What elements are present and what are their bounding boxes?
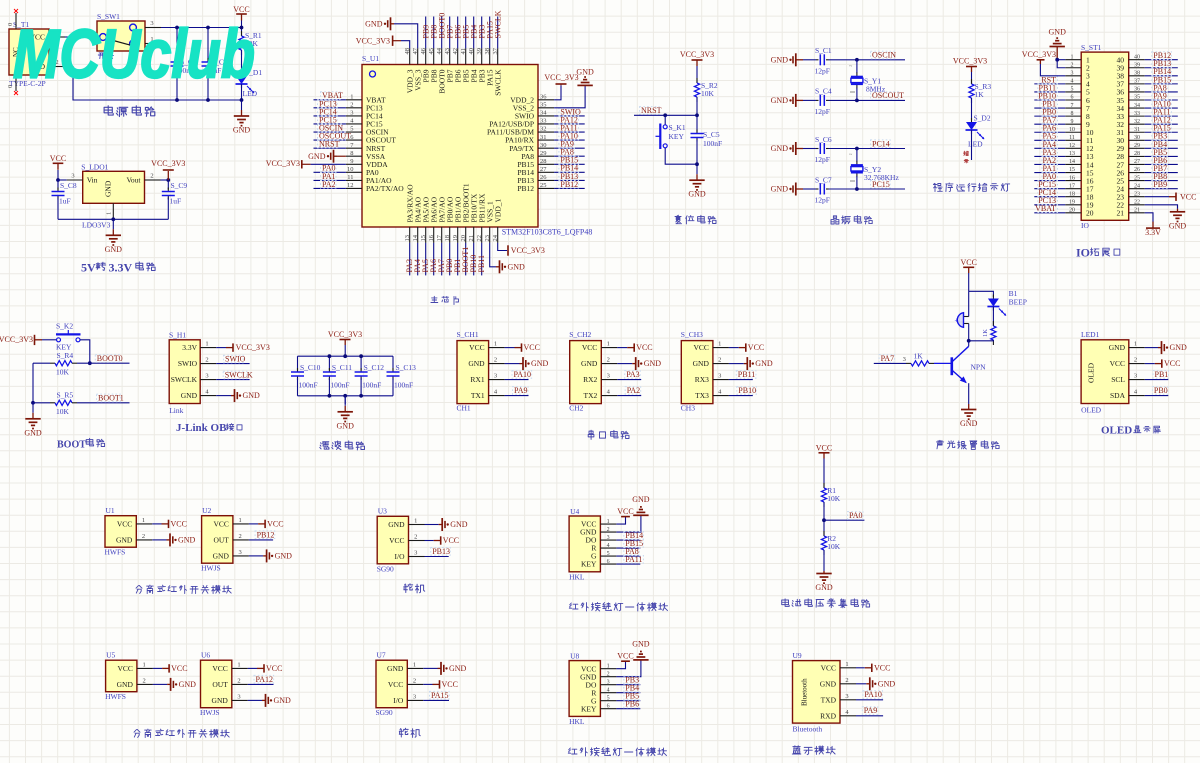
svg-text:22: 22 bbox=[476, 235, 483, 242]
svg-text:VCC: VCC bbox=[171, 664, 187, 673]
svg-text:RXD: RXD bbox=[820, 711, 836, 720]
svg-text:19: 19 bbox=[1069, 199, 1075, 205]
svg-text:VCC: VCC bbox=[267, 520, 283, 529]
svg-text:VCC: VCC bbox=[1164, 359, 1180, 368]
svg-text:S_C8: S_C8 bbox=[60, 181, 77, 190]
svg-text:9: 9 bbox=[1071, 119, 1074, 125]
svg-text:20: 20 bbox=[1086, 209, 1094, 218]
svg-text:GND: GND bbox=[105, 245, 123, 254]
svg-text:PB10: PB10 bbox=[738, 386, 756, 395]
svg-text:1: 1 bbox=[1134, 341, 1137, 348]
svg-text:2: 2 bbox=[414, 534, 417, 541]
svg-text:VCC: VCC bbox=[233, 5, 249, 14]
svg-text:GND: GND bbox=[1109, 343, 1126, 352]
svg-text:2: 2 bbox=[607, 357, 610, 364]
svg-text:U9: U9 bbox=[793, 651, 802, 660]
svg-text:VCC: VCC bbox=[1180, 192, 1196, 201]
svg-text:45: 45 bbox=[428, 48, 435, 55]
svg-text:5: 5 bbox=[607, 695, 610, 701]
svg-text:38: 38 bbox=[1134, 71, 1140, 77]
svg-text:10K: 10K bbox=[827, 542, 841, 551]
svg-text:NPN: NPN bbox=[971, 363, 987, 372]
svg-text:VCC: VCC bbox=[874, 663, 890, 672]
svg-text:S_C11: S_C11 bbox=[332, 363, 352, 372]
svg-text:3: 3 bbox=[1134, 373, 1137, 380]
svg-text:S_H1: S_H1 bbox=[169, 331, 186, 340]
svg-text:SWCLK: SWCLK bbox=[225, 371, 253, 380]
svg-text:LED: LED bbox=[968, 140, 983, 149]
svg-text:SWIO: SWIO bbox=[178, 359, 198, 368]
svg-text:RX3: RX3 bbox=[695, 375, 709, 384]
svg-text:10: 10 bbox=[347, 166, 354, 173]
svg-text:6: 6 bbox=[1071, 95, 1074, 101]
svg-text:IO: IO bbox=[1076, 246, 1090, 260]
svg-text:GND: GND bbox=[755, 359, 773, 368]
svg-text:24: 24 bbox=[492, 234, 499, 241]
svg-text:1K: 1K bbox=[975, 90, 985, 99]
svg-text:1uF: 1uF bbox=[170, 197, 182, 206]
svg-text:S_LDO1: S_LDO1 bbox=[81, 163, 108, 172]
svg-text:VCC_3V3: VCC_3V3 bbox=[328, 330, 362, 339]
svg-text:GND: GND bbox=[387, 664, 404, 673]
svg-text:PB6: PB6 bbox=[625, 700, 639, 709]
svg-text:32: 32 bbox=[540, 126, 547, 133]
svg-text:VCC_3V3: VCC_3V3 bbox=[356, 36, 390, 45]
svg-text:12pF: 12pF bbox=[815, 107, 830, 116]
svg-text:34: 34 bbox=[1134, 103, 1140, 109]
svg-text:21: 21 bbox=[468, 235, 475, 242]
svg-text:GND: GND bbox=[1169, 221, 1187, 230]
svg-text:GND: GND bbox=[117, 680, 134, 689]
svg-text:GND: GND bbox=[337, 421, 355, 430]
svg-text:PA3: PA3 bbox=[626, 370, 640, 379]
svg-text:Vin: Vin bbox=[87, 176, 98, 185]
svg-text:KEY: KEY bbox=[669, 132, 685, 141]
svg-text:SCL: SCL bbox=[1111, 375, 1125, 384]
svg-text:S_U1: S_U1 bbox=[362, 54, 379, 63]
svg-text:40: 40 bbox=[468, 48, 475, 55]
svg-text:19: 19 bbox=[452, 235, 459, 242]
svg-text:41: 41 bbox=[460, 48, 467, 55]
svg-text:GND: GND bbox=[178, 536, 196, 545]
svg-text:S_CH2: S_CH2 bbox=[569, 330, 591, 339]
svg-text:S_C9: S_C9 bbox=[171, 181, 188, 190]
svg-text:GND: GND bbox=[508, 262, 526, 271]
svg-text:Link: Link bbox=[169, 406, 183, 415]
svg-text:3: 3 bbox=[903, 356, 906, 363]
svg-text:VCC: VCC bbox=[617, 651, 633, 660]
svg-text:GND: GND bbox=[274, 696, 292, 705]
svg-text:U5: U5 bbox=[106, 651, 115, 660]
svg-text:21: 21 bbox=[1134, 208, 1140, 214]
svg-text:BOOT1: BOOT1 bbox=[98, 394, 124, 403]
svg-text:1uF: 1uF bbox=[59, 197, 71, 206]
svg-text:STM32F103C8T6_LQFP48: STM32F103C8T6_LQFP48 bbox=[502, 228, 593, 237]
svg-text:42: 42 bbox=[452, 48, 459, 55]
svg-text:GND: GND bbox=[365, 19, 383, 28]
svg-text:8MHz: 8MHz bbox=[866, 85, 886, 94]
svg-text:5: 5 bbox=[607, 551, 610, 557]
svg-text:HKL: HKL bbox=[569, 717, 585, 726]
svg-text:39: 39 bbox=[1134, 62, 1140, 68]
svg-text:3: 3 bbox=[845, 693, 848, 700]
svg-text:VCC: VCC bbox=[960, 258, 976, 267]
svg-text:7: 7 bbox=[1071, 103, 1074, 109]
svg-text:SG90: SG90 bbox=[376, 708, 393, 717]
svg-text:PA2: PA2 bbox=[627, 386, 641, 395]
svg-text:23: 23 bbox=[1134, 191, 1140, 197]
svg-text:VCC: VCC bbox=[821, 663, 836, 672]
svg-text:3: 3 bbox=[494, 373, 497, 380]
svg-text:26: 26 bbox=[540, 174, 547, 181]
svg-text:28: 28 bbox=[1134, 151, 1140, 157]
svg-text:4: 4 bbox=[607, 687, 610, 693]
svg-text:PB11: PB11 bbox=[477, 255, 486, 273]
svg-text:S_R5: S_R5 bbox=[57, 391, 74, 400]
svg-text:1: 1 bbox=[142, 661, 145, 668]
svg-text:GND: GND bbox=[771, 144, 789, 153]
svg-text:17: 17 bbox=[1069, 183, 1075, 189]
svg-text:1: 1 bbox=[607, 341, 610, 348]
svg-text:43: 43 bbox=[444, 48, 451, 55]
svg-text:2: 2 bbox=[607, 527, 610, 533]
svg-text:24: 24 bbox=[1134, 183, 1140, 189]
svg-text:RX1: RX1 bbox=[470, 375, 484, 384]
svg-text:VCC_3V3: VCC_3V3 bbox=[544, 73, 578, 82]
svg-text:VCC: VCC bbox=[389, 536, 404, 545]
svg-text:VCC: VCC bbox=[50, 154, 66, 163]
svg-text:11: 11 bbox=[347, 174, 353, 181]
svg-text:I/O: I/O bbox=[393, 696, 404, 705]
svg-text:PA2: PA2 bbox=[322, 180, 336, 189]
svg-text:BOOT0: BOOT0 bbox=[97, 354, 123, 363]
svg-text:S_C5: S_C5 bbox=[703, 130, 720, 139]
svg-text:VCC: VCC bbox=[443, 536, 459, 545]
svg-text:31: 31 bbox=[1134, 127, 1140, 133]
svg-text:1K: 1K bbox=[914, 352, 924, 361]
svg-text:HKL: HKL bbox=[569, 572, 585, 581]
svg-text:2: 2 bbox=[238, 533, 241, 540]
svg-text:4: 4 bbox=[607, 543, 610, 549]
svg-text:48: 48 bbox=[404, 48, 411, 55]
svg-text:1: 1 bbox=[607, 663, 610, 669]
svg-text:GND: GND bbox=[644, 359, 662, 368]
svg-text:VCC_3V3: VCC_3V3 bbox=[151, 159, 185, 168]
svg-text:VCC: VCC bbox=[582, 343, 597, 352]
svg-text:10K: 10K bbox=[56, 368, 70, 377]
svg-text:MCUclub: MCUclub bbox=[13, 16, 255, 93]
svg-text:31: 31 bbox=[540, 134, 547, 141]
svg-text:35: 35 bbox=[540, 102, 547, 109]
svg-text:CH3: CH3 bbox=[681, 404, 695, 413]
svg-text:3: 3 bbox=[607, 679, 610, 685]
svg-text:2: 2 bbox=[237, 677, 240, 684]
svg-text:21: 21 bbox=[1117, 209, 1125, 218]
svg-text:IO: IO bbox=[1081, 221, 1089, 230]
svg-text:VCC: VCC bbox=[213, 520, 228, 529]
svg-text:33: 33 bbox=[540, 118, 547, 125]
svg-text:2: 2 bbox=[350, 102, 353, 109]
svg-text:GND: GND bbox=[632, 495, 650, 504]
svg-text:GND: GND bbox=[388, 520, 405, 529]
svg-text:12: 12 bbox=[1069, 143, 1075, 149]
svg-text:GND: GND bbox=[243, 391, 261, 400]
svg-text:S_K1: S_K1 bbox=[669, 123, 686, 132]
svg-text:SWCLK: SWCLK bbox=[171, 375, 198, 384]
svg-text:PA10: PA10 bbox=[514, 370, 532, 379]
svg-text:16: 16 bbox=[428, 234, 435, 241]
svg-text:12pF: 12pF bbox=[815, 66, 830, 75]
svg-text:HWJS: HWJS bbox=[201, 564, 221, 573]
svg-text:PB13: PB13 bbox=[432, 547, 450, 556]
svg-text:GND: GND bbox=[688, 190, 706, 199]
svg-text:27: 27 bbox=[540, 166, 547, 173]
svg-text:15: 15 bbox=[420, 235, 427, 242]
svg-text:VCC: VCC bbox=[617, 507, 633, 516]
svg-text:23: 23 bbox=[484, 235, 491, 242]
svg-text:OUT: OUT bbox=[212, 680, 228, 689]
svg-text:100nF: 100nF bbox=[394, 381, 413, 390]
svg-text:PB12: PB12 bbox=[257, 530, 275, 539]
svg-text:SWIO: SWIO bbox=[225, 355, 246, 364]
svg-text:VCC_3V3: VCC_3V3 bbox=[953, 57, 987, 66]
svg-text:VCC_3V3: VCC_3V3 bbox=[1022, 50, 1056, 59]
svg-text:S_C7: S_C7 bbox=[815, 175, 832, 184]
svg-text:GND: GND bbox=[450, 520, 468, 529]
svg-text:4: 4 bbox=[1071, 79, 1074, 85]
svg-text:1: 1 bbox=[106, 212, 113, 215]
svg-text:TX3: TX3 bbox=[695, 391, 709, 400]
svg-text:PA10: PA10 bbox=[864, 690, 882, 699]
svg-text:OLED: OLED bbox=[1087, 362, 1096, 383]
svg-text:J-Link OB: J-Link OB bbox=[176, 422, 227, 434]
svg-text:GND: GND bbox=[1170, 343, 1188, 352]
svg-text:S_C12: S_C12 bbox=[364, 363, 385, 372]
svg-text:U4: U4 bbox=[570, 507, 579, 516]
svg-text:U8: U8 bbox=[570, 651, 579, 660]
svg-text:I/O: I/O bbox=[395, 552, 406, 561]
svg-text:GND: GND bbox=[531, 359, 549, 368]
svg-text:VCC: VCC bbox=[748, 343, 764, 352]
svg-text:GND: GND bbox=[632, 640, 650, 649]
svg-text:GND: GND bbox=[233, 126, 251, 135]
svg-text:30: 30 bbox=[540, 142, 547, 149]
svg-text:S_C1: S_C1 bbox=[815, 46, 832, 55]
svg-text:KEY: KEY bbox=[581, 704, 597, 713]
svg-text:3: 3 bbox=[1071, 71, 1074, 77]
svg-text:Vout: Vout bbox=[126, 176, 141, 185]
svg-text:1: 1 bbox=[350, 94, 353, 101]
svg-text:18: 18 bbox=[1069, 191, 1075, 197]
svg-text:3: 3 bbox=[607, 535, 610, 541]
svg-text:32.768KHz: 32.768KHz bbox=[864, 173, 899, 182]
svg-text:100nF: 100nF bbox=[362, 381, 381, 390]
svg-text:OUT: OUT bbox=[213, 536, 229, 545]
svg-text:GND: GND bbox=[212, 696, 229, 705]
svg-text:CH2: CH2 bbox=[569, 404, 583, 413]
svg-text:PA9: PA9 bbox=[864, 706, 878, 715]
svg-text:VDD_1: VDD_1 bbox=[493, 199, 502, 223]
svg-text:3: 3 bbox=[414, 550, 417, 557]
svg-text:10: 10 bbox=[1069, 127, 1075, 133]
svg-text:3.3V: 3.3V bbox=[182, 343, 197, 352]
svg-text:CH1: CH1 bbox=[457, 404, 471, 413]
svg-text:Bluetooth: Bluetooth bbox=[793, 725, 823, 734]
svg-text:VCC: VCC bbox=[442, 680, 458, 689]
svg-text:3: 3 bbox=[205, 373, 208, 380]
svg-text:PB12: PB12 bbox=[517, 184, 534, 193]
svg-text:1: 1 bbox=[237, 661, 240, 668]
svg-text:22: 22 bbox=[1134, 199, 1140, 205]
svg-text:GND: GND bbox=[815, 583, 833, 592]
svg-text:PB0: PB0 bbox=[1154, 386, 1168, 395]
svg-text:20: 20 bbox=[460, 235, 467, 242]
svg-text:25: 25 bbox=[540, 182, 547, 189]
svg-text:TXD: TXD bbox=[821, 695, 837, 704]
svg-text:U1: U1 bbox=[106, 506, 115, 515]
svg-text:38: 38 bbox=[484, 48, 491, 55]
svg-text:S_D2: S_D2 bbox=[974, 114, 991, 123]
svg-text:GND: GND bbox=[104, 180, 113, 197]
svg-text:U7: U7 bbox=[377, 651, 386, 660]
svg-text:34: 34 bbox=[540, 110, 547, 117]
svg-text:1: 1 bbox=[1071, 54, 1074, 60]
svg-text:32: 32 bbox=[1134, 119, 1140, 125]
svg-text:SG90: SG90 bbox=[377, 564, 394, 573]
svg-text:GND: GND bbox=[1049, 28, 1067, 37]
svg-text:28: 28 bbox=[540, 158, 547, 165]
svg-text:VCC: VCC bbox=[524, 343, 540, 352]
svg-text:S_C6: S_C6 bbox=[815, 135, 832, 144]
svg-text:GND: GND bbox=[581, 359, 598, 368]
svg-text:100nF: 100nF bbox=[299, 381, 318, 390]
svg-text:1: 1 bbox=[413, 661, 416, 668]
svg-text:VCC_3V3: VCC_3V3 bbox=[511, 246, 545, 255]
svg-text:27: 27 bbox=[1134, 159, 1140, 165]
svg-text:37: 37 bbox=[1134, 79, 1140, 85]
svg-text:GND: GND bbox=[179, 680, 197, 689]
svg-text:3: 3 bbox=[237, 693, 240, 700]
svg-text:GND: GND bbox=[771, 96, 789, 105]
svg-text:2: 2 bbox=[413, 677, 416, 684]
svg-text:35: 35 bbox=[1134, 95, 1140, 101]
svg-text:TX2: TX2 bbox=[584, 391, 598, 400]
svg-text:12pF: 12pF bbox=[815, 155, 830, 164]
svg-text:PA15: PA15 bbox=[431, 691, 449, 700]
svg-text:6: 6 bbox=[607, 703, 610, 709]
svg-text:VCC: VCC bbox=[117, 664, 132, 673]
svg-text:10K: 10K bbox=[827, 494, 841, 503]
svg-text:3: 3 bbox=[607, 373, 610, 380]
svg-text:2: 2 bbox=[718, 357, 721, 364]
svg-text:10K: 10K bbox=[701, 89, 715, 98]
svg-text:GND: GND bbox=[308, 152, 326, 161]
svg-text:GND: GND bbox=[878, 679, 896, 688]
svg-text:10K: 10K bbox=[56, 407, 70, 416]
svg-text:VCC_3V3: VCC_3V3 bbox=[0, 335, 33, 344]
svg-text:8: 8 bbox=[1071, 111, 1074, 117]
svg-text:S_CH3: S_CH3 bbox=[681, 330, 703, 339]
svg-text:KEY: KEY bbox=[581, 560, 597, 569]
svg-text:PC14: PC14 bbox=[872, 139, 890, 148]
svg-text:30: 30 bbox=[1134, 135, 1140, 141]
svg-text:6: 6 bbox=[607, 559, 610, 565]
svg-text:16: 16 bbox=[1069, 175, 1075, 181]
svg-text:PA12: PA12 bbox=[256, 675, 274, 684]
svg-text:RX2: RX2 bbox=[583, 375, 597, 384]
svg-text:1K: 1K bbox=[982, 329, 989, 337]
svg-text:GND: GND bbox=[449, 664, 467, 673]
svg-text:S_R4: S_R4 bbox=[57, 351, 74, 360]
svg-text:GND: GND bbox=[771, 55, 789, 64]
svg-text:2: 2 bbox=[1134, 357, 1137, 364]
svg-text:U6: U6 bbox=[201, 651, 210, 660]
svg-text:VCC: VCC bbox=[266, 664, 282, 673]
svg-text:VCC: VCC bbox=[636, 343, 652, 352]
svg-text:VCC: VCC bbox=[469, 343, 484, 352]
svg-text:1: 1 bbox=[845, 661, 848, 668]
svg-text:15: 15 bbox=[1069, 167, 1075, 173]
svg-text:20: 20 bbox=[1069, 208, 1075, 214]
svg-text:NRST: NRST bbox=[641, 106, 662, 115]
svg-text:2: 2 bbox=[845, 677, 848, 684]
svg-text:8: 8 bbox=[350, 150, 353, 157]
svg-text:VCC: VCC bbox=[388, 680, 403, 689]
svg-text:VCC_3V3: VCC_3V3 bbox=[236, 343, 270, 352]
svg-text:OLED: OLED bbox=[1101, 425, 1132, 437]
svg-text:11: 11 bbox=[1069, 135, 1075, 141]
svg-text:36: 36 bbox=[1134, 87, 1140, 93]
svg-text:VCC: VCC bbox=[816, 443, 832, 452]
svg-text:SWCLK: SWCLK bbox=[493, 10, 502, 38]
svg-text:1: 1 bbox=[414, 518, 417, 525]
svg-text:S_ST1: S_ST1 bbox=[1081, 43, 1102, 52]
svg-text:S_K2: S_K2 bbox=[56, 322, 73, 331]
svg-text:VCC: VCC bbox=[212, 664, 227, 673]
svg-text:2: 2 bbox=[142, 677, 145, 684]
svg-text:S_C13: S_C13 bbox=[396, 363, 417, 372]
svg-text:U2: U2 bbox=[202, 506, 211, 515]
svg-text:3.3V: 3.3V bbox=[109, 261, 133, 275]
svg-text:GND: GND bbox=[468, 359, 485, 368]
svg-text:2: 2 bbox=[607, 671, 610, 677]
svg-text:3: 3 bbox=[350, 110, 353, 117]
svg-text:100nF: 100nF bbox=[330, 381, 349, 390]
svg-text:1: 1 bbox=[142, 517, 145, 524]
svg-text:PB12: PB12 bbox=[560, 180, 578, 189]
svg-text:1: 1 bbox=[238, 517, 241, 524]
svg-text:HWFS: HWFS bbox=[105, 692, 126, 701]
svg-text:GND: GND bbox=[576, 67, 594, 76]
svg-text:PA2/TX/AO: PA2/TX/AO bbox=[366, 184, 404, 193]
svg-text:33: 33 bbox=[1134, 111, 1140, 117]
svg-text:25: 25 bbox=[1134, 175, 1140, 181]
svg-text:2: 2 bbox=[1071, 62, 1074, 68]
svg-text:40: 40 bbox=[1134, 54, 1140, 60]
svg-text:VCC_3V3: VCC_3V3 bbox=[680, 50, 714, 59]
svg-text:GND: GND bbox=[213, 552, 230, 561]
svg-text:2: 2 bbox=[494, 357, 497, 364]
svg-text:PB11: PB11 bbox=[738, 370, 756, 379]
svg-text:GND: GND bbox=[275, 552, 293, 561]
svg-text:GND: GND bbox=[771, 185, 789, 194]
svg-text:HWFS: HWFS bbox=[105, 548, 126, 557]
svg-text:+: + bbox=[955, 317, 959, 325]
svg-text:GND: GND bbox=[693, 359, 710, 368]
svg-text:PB9: PB9 bbox=[1153, 180, 1167, 189]
svg-text:2: 2 bbox=[205, 357, 208, 364]
svg-text:12pF: 12pF bbox=[815, 196, 830, 205]
